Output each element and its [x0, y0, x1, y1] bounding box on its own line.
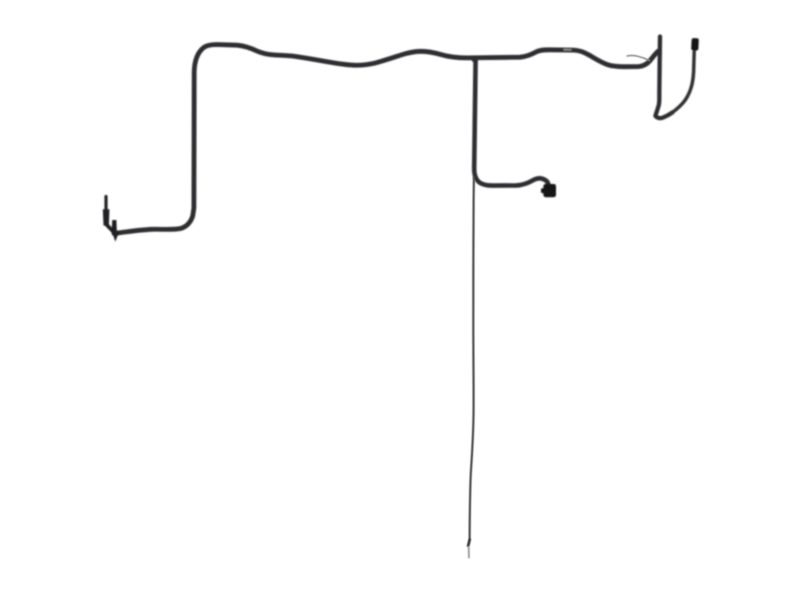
connector top right — [691, 38, 699, 51]
highlight dash on hose — [564, 49, 571, 51]
drain line faint tail — [468, 547, 470, 558]
wire right j-tube left arm — [655, 37, 672, 119]
connector tab left side — [541, 188, 544, 193]
wire middle vertical drop from tee — [474, 59, 548, 186]
connector block mid right — [543, 184, 556, 197]
clip tab below hose — [113, 235, 118, 242]
wire thin drain line — [470, 178, 474, 540]
left fitting pin — [104, 197, 107, 210]
wire thin hook above main hose right — [627, 55, 649, 60]
tee junction weld — [471, 57, 478, 63]
wire main hose run — [114, 45, 658, 234]
left fitting barrel — [103, 209, 110, 225]
left fitting neck — [106, 225, 114, 233]
junction blob left — [112, 230, 119, 236]
clip post above hose — [112, 220, 117, 234]
wire right j-tube upper curve to connector — [671, 52, 694, 114]
drain line tip kink — [468, 540, 470, 546]
